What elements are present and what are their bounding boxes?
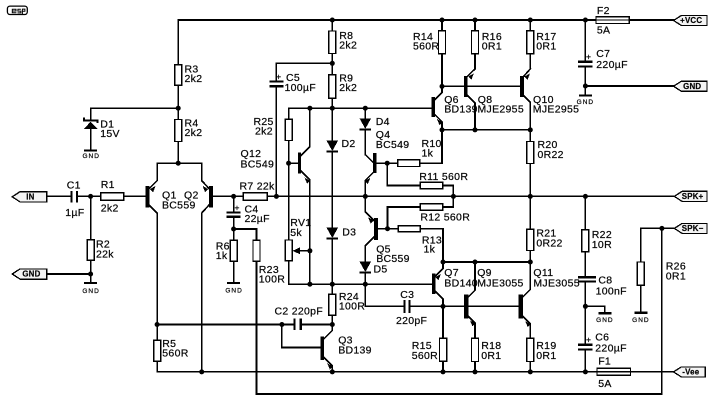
wire top rail left drop to R3 xyxy=(177,20,179,65)
svg-text:-Vee: -Vee xyxy=(682,368,699,377)
node VAS junctions xyxy=(307,106,367,111)
transistor Q7 BD140 xyxy=(432,262,478,306)
node R22 top on output rail xyxy=(583,194,588,199)
svg-text:1k: 1k xyxy=(216,250,228,262)
svg-text:C3: C3 xyxy=(400,289,414,301)
node C6 bottom on -VEE rail xyxy=(583,369,588,374)
wire R2 column xyxy=(90,196,92,282)
capacitor C5 100uF bootstrap xyxy=(269,63,332,196)
ground below R2 xyxy=(82,283,99,295)
node emitter line junction xyxy=(176,161,181,166)
transistor Q1 BC559 xyxy=(145,163,198,324)
terminal GND left xyxy=(12,269,46,279)
resistor R16 xyxy=(472,20,502,69)
wire VAS line y=108 xyxy=(289,107,432,109)
resistor R5 xyxy=(154,325,189,372)
node R20/R21 output rail xyxy=(528,194,533,199)
node Q6 collector / R14 / bases line xyxy=(440,84,445,89)
svg-text:D3: D3 xyxy=(342,226,356,238)
node R7 right / C5 bottom / output rail xyxy=(274,194,279,199)
svg-text:D4: D4 xyxy=(376,116,390,128)
resistor R2 xyxy=(87,239,114,261)
svg-text:0R1: 0R1 xyxy=(666,271,686,283)
diode D2 xyxy=(327,108,356,227)
diode D4 xyxy=(360,108,390,154)
node Q5 base / R12 / R13 junction xyxy=(385,226,390,231)
wire feedback bottom line xyxy=(257,228,662,394)
diode D3 xyxy=(327,226,357,284)
capacitor C7 220uF xyxy=(578,20,628,86)
resistor R3 xyxy=(175,63,203,85)
capacitor C4 22uF xyxy=(227,196,270,229)
transistor Q9 MJE3055 xyxy=(464,262,524,338)
resistor R11 560R xyxy=(387,163,468,196)
capacitor C3 220pF xyxy=(365,284,443,327)
node lower driver junctions xyxy=(473,260,533,265)
resistor R10 xyxy=(387,130,442,167)
svg-text:R1: R1 xyxy=(101,179,115,191)
svg-text:10R: 10R xyxy=(592,239,612,251)
node C2 left / Q3 base tap xyxy=(279,322,284,327)
svg-text:GND: GND xyxy=(82,288,99,295)
svg-text:BD139: BD139 xyxy=(444,104,478,116)
svg-text:220pF: 220pF xyxy=(396,315,427,327)
fuse F1 xyxy=(597,355,631,390)
svg-text:GND: GND xyxy=(82,153,99,160)
wire upper output line y=129.9 xyxy=(442,129,530,131)
capacitor C6 220uF xyxy=(578,306,627,372)
svg-text:5k: 5k xyxy=(290,227,302,239)
wire upper bases line y=86.4 xyxy=(442,85,520,87)
svg-text:MJE2955: MJE2955 xyxy=(478,104,524,116)
resistor R25 xyxy=(254,108,293,163)
resistor R22 xyxy=(582,196,612,275)
svg-text:1k: 1k xyxy=(424,244,436,256)
resistor R7 22k xyxy=(234,181,277,201)
ground from C8 node xyxy=(585,306,613,324)
wire R4 bottom to emitter line xyxy=(177,142,179,164)
resistor R21 xyxy=(527,196,563,262)
resistor R8 xyxy=(329,20,357,63)
svg-text:F1: F1 xyxy=(598,355,611,367)
wire SPK- line xyxy=(641,227,674,229)
node top rail junctions xyxy=(330,18,588,23)
ground below C7 xyxy=(577,86,594,106)
svg-text:220µF: 220µF xyxy=(595,342,626,354)
svg-text:GND: GND xyxy=(632,317,649,324)
svg-text:BD139: BD139 xyxy=(338,345,372,357)
svg-text:MJE3055: MJE3055 xyxy=(533,277,579,289)
transistor Q4 BC549 xyxy=(365,129,409,197)
wire R3 bottom to R4 top xyxy=(177,85,179,119)
svg-text:220µF: 220µF xyxy=(596,59,627,71)
wire R1 to Q1 base xyxy=(124,195,145,197)
resistor R23 xyxy=(234,229,286,394)
svg-text:BC549: BC549 xyxy=(241,158,275,170)
wire bias line y=284.2 xyxy=(289,283,432,285)
node SPK- junction xyxy=(659,226,664,231)
terminal SPK+ xyxy=(674,191,707,201)
svg-text:SPK−: SPK− xyxy=(682,224,704,233)
svg-text:R11 560R: R11 560R xyxy=(419,171,468,183)
transistor Q11 MJE3055 xyxy=(519,262,580,338)
svg-text:BC549: BC549 xyxy=(376,139,410,151)
node Q7 emitter / R13 / driver line xyxy=(441,260,446,265)
terminal SPK- xyxy=(674,223,707,233)
wire lower bases line y=306.4 xyxy=(443,305,519,307)
ground below R26 xyxy=(632,313,649,324)
resistor R26 xyxy=(637,228,686,311)
node Q1 collector / R5 top xyxy=(155,322,160,327)
svg-text:2k2: 2k2 xyxy=(185,73,203,85)
svg-text:GND: GND xyxy=(22,270,40,279)
svg-text:R7 22k: R7 22k xyxy=(240,181,276,193)
node Q2 base / R7 / C4 junction xyxy=(231,194,236,199)
svg-text:GND: GND xyxy=(225,287,242,294)
resistor R14 xyxy=(413,20,446,86)
svg-text:0R1: 0R1 xyxy=(536,41,556,53)
node Q12 base / R25 / RV1 junction xyxy=(286,161,291,166)
svg-text:GND: GND xyxy=(577,99,594,106)
node Q4 base / R10 / R11 junction xyxy=(385,161,390,166)
wire GND terminal to R2 bottom xyxy=(47,273,91,275)
transistor Q5 BC559 xyxy=(365,196,410,265)
svg-text:100nF: 100nF xyxy=(596,285,627,297)
transistor Q8 MJE2955 xyxy=(464,69,524,130)
svg-text:2k2: 2k2 xyxy=(255,126,273,138)
resistor R9 xyxy=(329,63,357,108)
svg-text:2k2: 2k2 xyxy=(101,203,119,215)
node C8 bottom junction xyxy=(583,304,588,309)
svg-text:+: + xyxy=(235,203,240,213)
svg-text:1k: 1k xyxy=(422,148,434,160)
capacitor C2 220pF xyxy=(275,305,324,330)
node C3 / Q7 collector / R15 / bases xyxy=(441,304,446,309)
node Q4/Q5 emitters to output rail xyxy=(363,194,368,199)
svg-text:IN: IN xyxy=(26,192,34,201)
ground below D1 xyxy=(82,150,99,159)
svg-text:+VCC: +VCC xyxy=(680,16,702,25)
node -VEE rail junctions xyxy=(441,369,533,374)
svg-text:R12 560R: R12 560R xyxy=(420,212,470,224)
resistor R6 xyxy=(216,229,237,282)
svg-text:+: + xyxy=(586,334,591,344)
resistor R4 xyxy=(175,117,203,141)
svg-text:MJE2955: MJE2955 xyxy=(533,104,579,116)
wire VCC mid rail y=108 D1 to R3/R4 junction xyxy=(91,107,179,109)
wire top +VCC rail xyxy=(178,19,673,21)
transistor Q6 BD139 xyxy=(431,86,478,129)
node R3/R4 junction xyxy=(176,106,181,111)
svg-text:2k2: 2k2 xyxy=(339,82,357,94)
resistor R18 xyxy=(472,338,502,372)
svg-text:C2 220pF: C2 220pF xyxy=(275,305,324,317)
svg-text:2k2: 2k2 xyxy=(185,127,203,139)
svg-text:15V: 15V xyxy=(100,128,120,140)
svg-text:560R: 560R xyxy=(412,350,438,362)
svg-text:2k2: 2k2 xyxy=(339,40,357,52)
node C5/R8/R9 junction xyxy=(330,61,335,66)
terminal +VCC xyxy=(674,16,707,26)
node bias line junctions xyxy=(307,282,367,287)
resistor R20 xyxy=(527,130,564,197)
svg-text:5A: 5A xyxy=(597,25,610,37)
wire GND right line xyxy=(585,85,673,87)
svg-text:100µF: 100µF xyxy=(285,82,316,94)
wire lower driver line y=262 xyxy=(443,261,530,263)
node upper output junctions xyxy=(440,127,533,132)
svg-text:F2: F2 xyxy=(597,5,610,17)
capacitor C8 100nF xyxy=(578,274,627,306)
svg-text:22µF: 22µF xyxy=(245,213,270,225)
wire IN to C1 xyxy=(47,195,71,197)
svg-text:0R22: 0R22 xyxy=(538,149,564,161)
node C7 / GND line junction xyxy=(583,84,588,89)
resistor R17 xyxy=(527,20,557,69)
svg-text:GND: GND xyxy=(596,317,613,324)
svg-text:BD140: BD140 xyxy=(444,277,478,289)
ESP logo xyxy=(7,6,27,15)
node R24 bottom / Q3 collector xyxy=(330,322,335,327)
node input junction xyxy=(88,194,93,199)
fuse F2 xyxy=(596,5,629,37)
node RV1 wiper / Q12 emitter xyxy=(307,248,312,253)
svg-text:MJE3055: MJE3055 xyxy=(477,277,523,289)
node C4 bottom / R6 / R23 junction xyxy=(231,227,236,232)
wire Miller line y=324.5 xyxy=(157,324,332,326)
zener diode D1 15V xyxy=(84,108,120,149)
terminal IN xyxy=(12,192,46,202)
svg-text:1µF: 1µF xyxy=(65,207,84,219)
svg-text:+: + xyxy=(276,71,281,81)
svg-text:SPK+: SPK+ xyxy=(682,192,704,201)
wire C1 to R1 xyxy=(78,195,101,197)
wire Q1 Q2 emitter line xyxy=(157,162,202,164)
transistor Q2 BC559 xyxy=(202,163,234,372)
svg-text:560R: 560R xyxy=(162,348,188,360)
resistor R1 xyxy=(101,179,124,215)
wire output rail y=196.4 SPK+ xyxy=(276,195,674,197)
svg-text:GND: GND xyxy=(683,82,701,91)
diode D5 xyxy=(360,262,388,285)
svg-text:+: + xyxy=(586,51,591,61)
capacitor C1 xyxy=(65,179,84,219)
terminal -VEE xyxy=(674,367,706,377)
svg-text:100R: 100R xyxy=(339,301,365,313)
svg-text:5A: 5A xyxy=(598,378,611,390)
svg-text:D2: D2 xyxy=(342,138,356,150)
resistor R13 xyxy=(388,226,444,262)
svg-text:C1: C1 xyxy=(67,179,81,191)
ground below R6 xyxy=(225,283,242,294)
svg-text:0R1: 0R1 xyxy=(536,350,556,362)
transistor Q12 BC549 xyxy=(241,108,310,284)
resistor R15 xyxy=(412,306,447,372)
node Q2 collector to rail xyxy=(199,369,204,374)
wire -VEE bottom rail xyxy=(157,371,597,373)
node Q3 emitter to rail xyxy=(330,369,335,374)
svg-text:0R22: 0R22 xyxy=(536,237,562,249)
svg-text:D5: D5 xyxy=(374,264,388,276)
terminal GND right xyxy=(674,81,707,91)
svg-text:0R1: 0R1 xyxy=(481,350,501,362)
svg-text:BC559: BC559 xyxy=(162,200,196,212)
node R11/R12 to output rail xyxy=(451,194,456,199)
svg-text:0R1: 0R1 xyxy=(482,41,502,53)
svg-text:560R: 560R xyxy=(413,41,439,53)
resistor R12 560R xyxy=(388,196,471,228)
resistor R19 xyxy=(527,338,557,372)
transistor Q3 BD139 xyxy=(282,325,372,372)
svg-text:100R: 100R xyxy=(259,274,285,286)
wire -VEE rail after F1 xyxy=(631,371,674,373)
resistor R24 xyxy=(329,284,366,324)
svg-text:22k: 22k xyxy=(96,248,114,260)
node R2/GND junction xyxy=(88,272,93,277)
transistor Q10 MJE2955 xyxy=(520,69,579,130)
trimpot RV1 5k xyxy=(285,163,311,284)
